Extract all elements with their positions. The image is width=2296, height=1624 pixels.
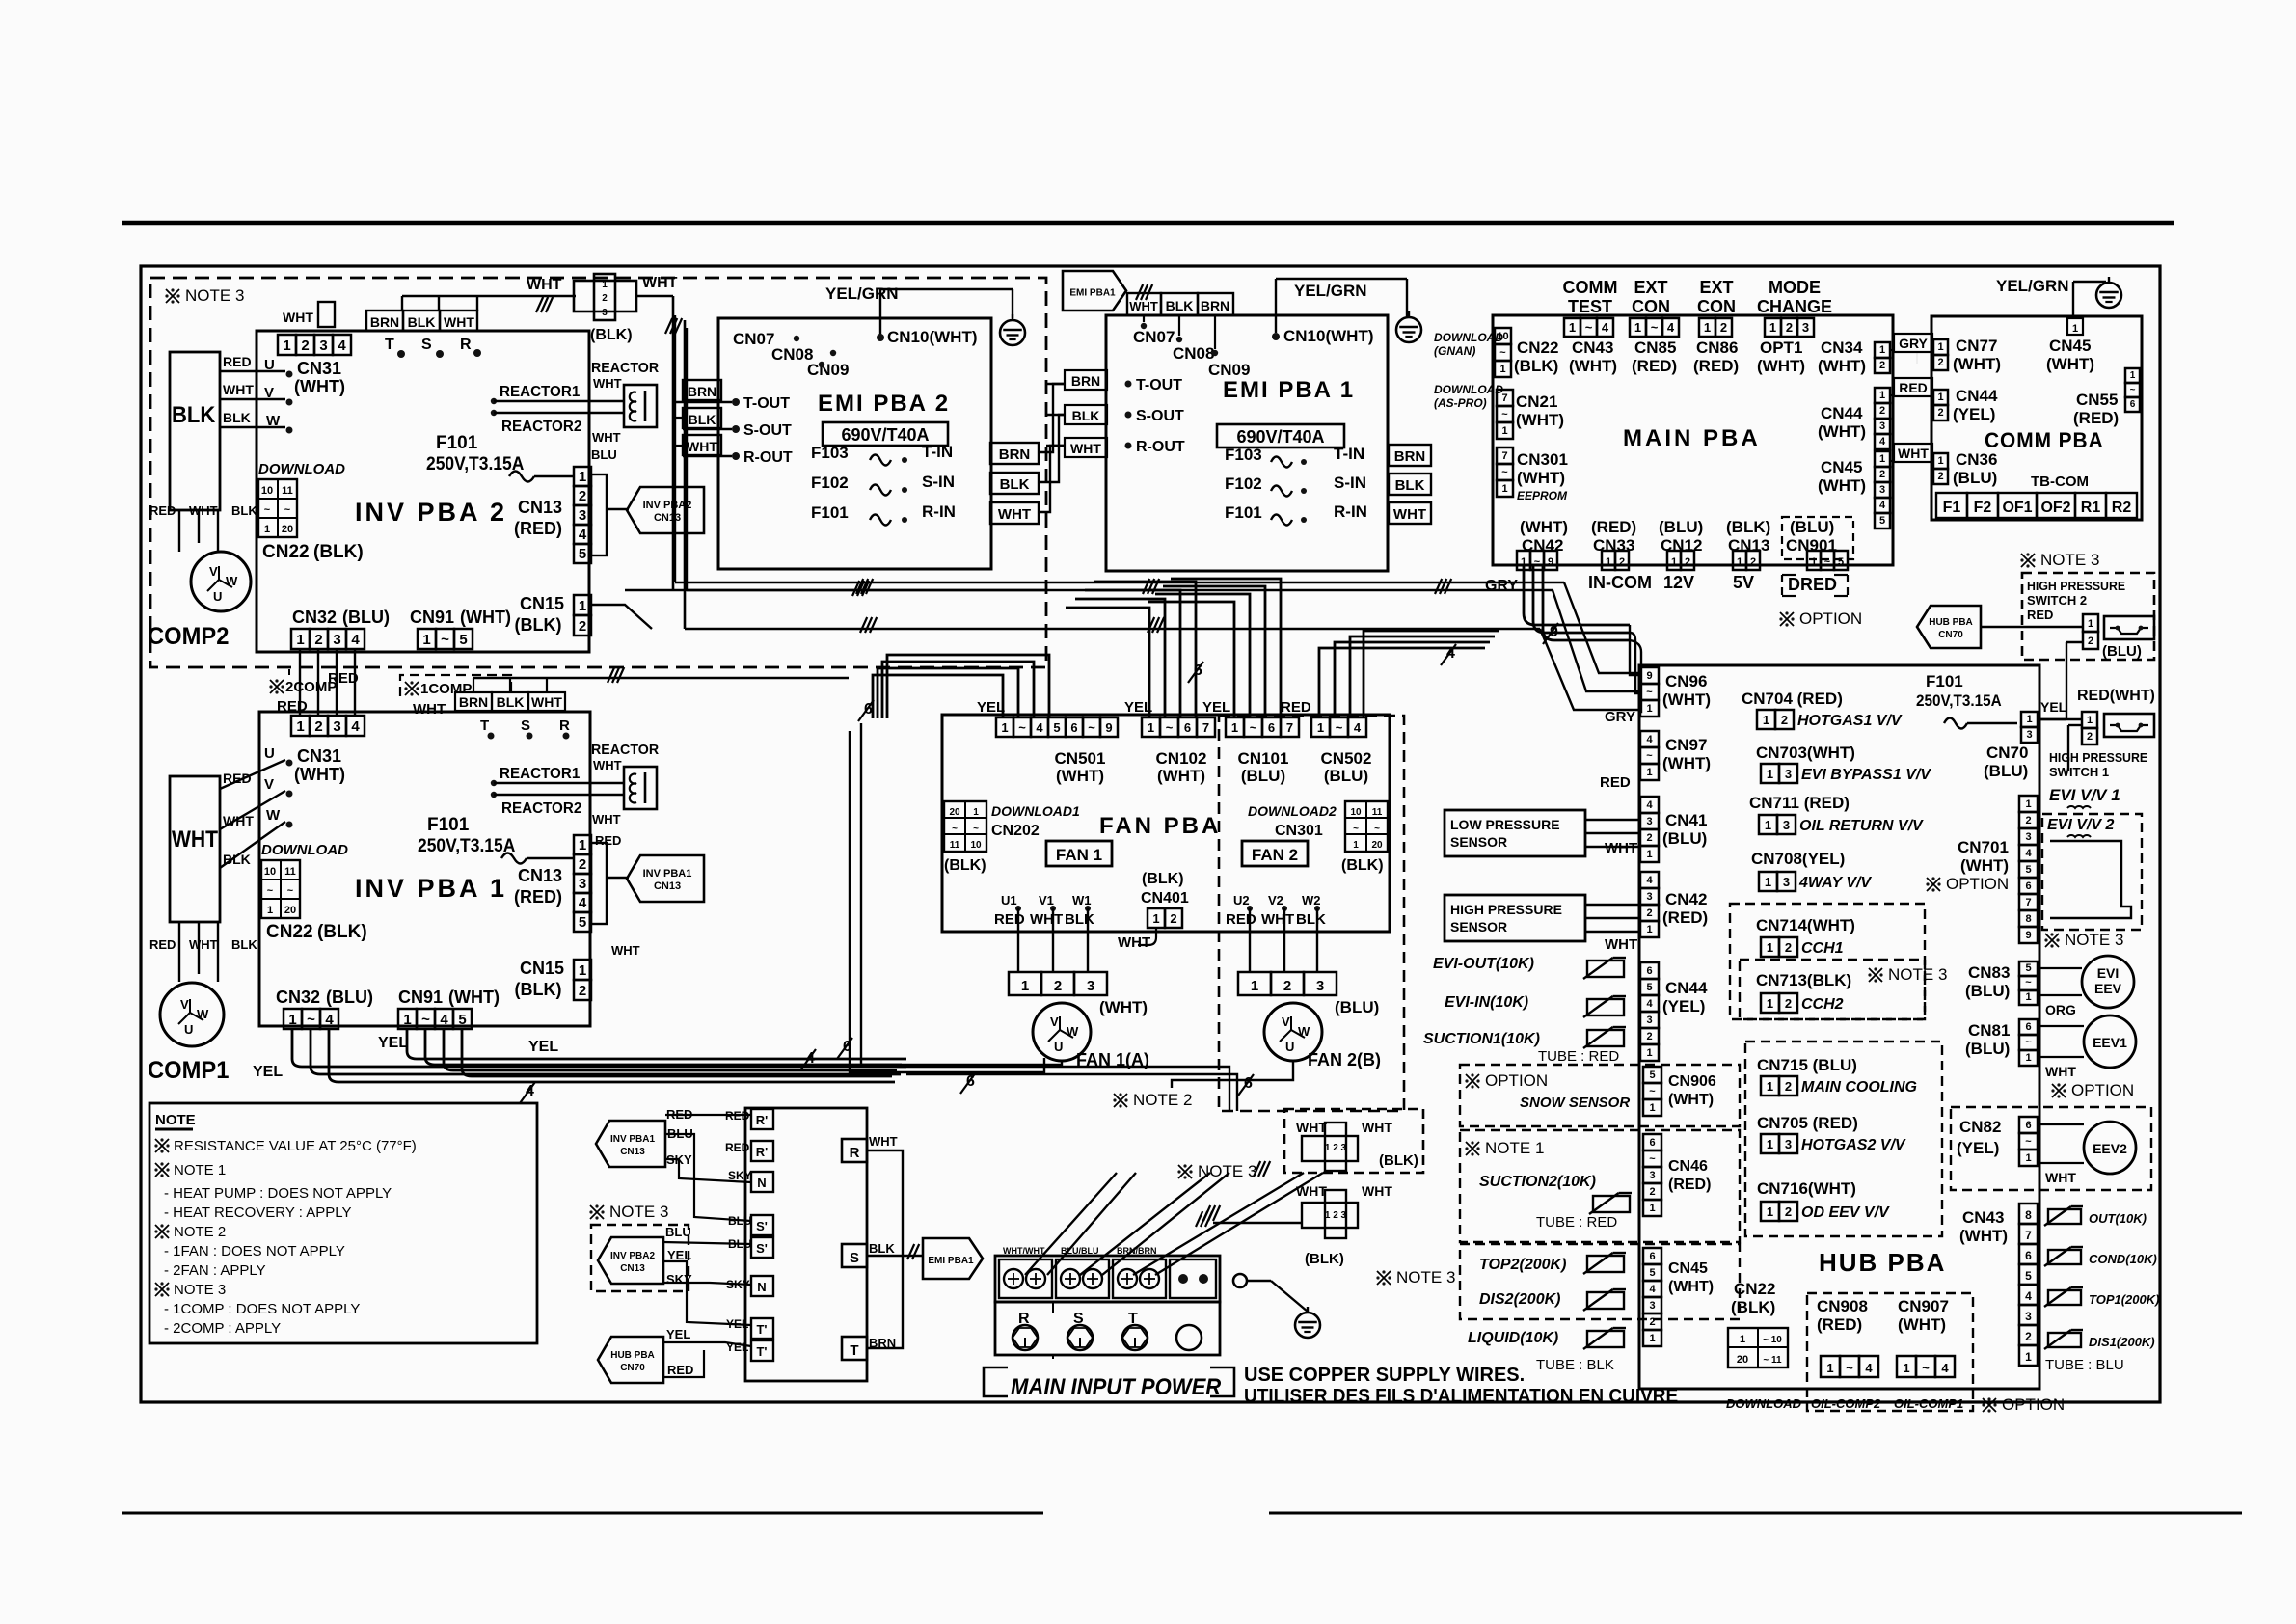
connector DOWNLOAD1 CN202 xyxy=(944,801,986,852)
svg-text:NOTE 2: NOTE 2 xyxy=(1133,1091,1192,1109)
svg-text:3: 3 xyxy=(1783,875,1790,889)
svg-text:SKY: SKY xyxy=(666,1272,692,1286)
block EMI PBA 2 xyxy=(718,318,991,569)
svg-text:1: 1 xyxy=(1501,425,1507,437)
svg-text:11: 11 xyxy=(282,485,293,497)
svg-text:690V/T40A: 690V/T40A xyxy=(841,425,929,445)
svg-text:(RED): (RED) xyxy=(1591,518,1636,536)
svg-text:S-IN: S-IN xyxy=(1334,474,1366,492)
svg-text:R': R' xyxy=(756,1113,768,1127)
wires COMP2 to motor xyxy=(178,510,180,526)
svg-text:1: 1 xyxy=(1769,320,1776,335)
svg-text:OPT1: OPT1 xyxy=(1760,338,1802,357)
svg-text:W: W xyxy=(266,413,281,429)
wire trunk top xyxy=(674,315,676,582)
fan1 wires to motor xyxy=(1017,908,1019,972)
svg-text:GRY: GRY xyxy=(1485,578,1518,594)
svg-text:BLK: BLK xyxy=(1166,298,1194,313)
svg-text:1: 1 xyxy=(1879,390,1885,401)
svg-text:YEL/GRN: YEL/GRN xyxy=(1996,277,2069,295)
svg-text:1: 1 xyxy=(1826,1361,1833,1375)
svg-text:CN55: CN55 xyxy=(2076,391,2118,409)
svg-text:(BLU): (BLU) xyxy=(1662,829,1707,848)
svg-text:S: S xyxy=(850,1250,859,1266)
svg-text:RED: RED xyxy=(223,354,252,369)
svg-text:CN83: CN83 xyxy=(1968,963,2010,982)
wires CN32 PBA2 down to INV PBA1 xyxy=(299,649,301,716)
svg-text:YEL: YEL xyxy=(1202,699,1230,716)
svg-text:2: 2 xyxy=(1170,911,1176,926)
dashed box CN82 (YEL) xyxy=(1951,1107,2151,1190)
svg-text:CN45: CN45 xyxy=(1668,1260,1708,1277)
svg-text:1: 1 xyxy=(1767,940,1773,955)
connector 1234 top INV PBA 2 xyxy=(278,335,296,355)
svg-text:WHT: WHT xyxy=(1296,1120,1327,1135)
svg-text:1: 1 xyxy=(1649,1102,1655,1114)
svg-text:HOTGAS2 V/V: HOTGAS2 V/V xyxy=(1801,1137,1906,1153)
svg-text:BRN: BRN xyxy=(688,384,716,399)
svg-text:F101: F101 xyxy=(427,815,470,835)
svg-text:WHT: WHT xyxy=(611,943,640,958)
svg-text:BRN: BRN xyxy=(999,447,1031,463)
svg-text:2: 2 xyxy=(1646,907,1652,919)
svg-text:DIS2(200K): DIS2(200K) xyxy=(1479,1291,1560,1308)
svg-text:10: 10 xyxy=(1497,331,1508,342)
svg-text:EXT: EXT xyxy=(1699,278,1733,297)
svg-text:6: 6 xyxy=(1070,720,1077,735)
svg-text:W: W xyxy=(266,807,281,824)
svg-text:1: 1 xyxy=(1501,483,1507,495)
svg-text:OPTION: OPTION xyxy=(2071,1081,2134,1099)
svg-text:CN43: CN43 xyxy=(1962,1208,2004,1227)
svg-text:F102: F102 xyxy=(811,474,849,492)
compressor COMP1 lead box WHT xyxy=(170,776,220,922)
svg-text:5: 5 xyxy=(1649,1267,1655,1279)
svg-text:INV PBA1: INV PBA1 xyxy=(643,868,692,880)
labels CN07 CN08 CN09 EMI PBA 1 xyxy=(1143,315,1145,322)
svg-text:~: ~ xyxy=(1646,750,1653,762)
wire riser to trunk xyxy=(672,296,675,590)
svg-text:BLK: BLK xyxy=(497,694,525,710)
svg-text:SENSOR: SENSOR xyxy=(1450,919,1507,934)
svg-text:CN22: CN22 xyxy=(1517,338,1558,357)
svg-text:2COMP: 2COMP xyxy=(285,679,337,695)
svg-text:YEL: YEL xyxy=(666,1327,690,1341)
svg-text:V: V xyxy=(264,776,274,793)
svg-text:BRN: BRN xyxy=(1394,448,1426,465)
svg-text:(RED): (RED) xyxy=(2073,409,2119,427)
svg-text:(WHT): (WHT) xyxy=(294,377,345,396)
svg-text:2: 2 xyxy=(579,983,586,999)
svg-text:HUB PBA: HUB PBA xyxy=(1929,617,1973,628)
svg-text:(BLK): (BLK) xyxy=(515,980,562,999)
svg-text:F103: F103 xyxy=(811,444,849,462)
svg-text:9: 9 xyxy=(1548,556,1553,568)
svg-text:~: ~ xyxy=(1374,824,1380,834)
svg-text:CN31: CN31 xyxy=(297,746,341,766)
svg-text:EMI PBA1: EMI PBA1 xyxy=(1069,288,1116,299)
svg-text:WHT: WHT xyxy=(592,430,621,445)
connector CN41 (BLU) xyxy=(1640,797,1659,813)
dashed box CN715 group xyxy=(1745,1042,1942,1236)
svg-text:1: 1 xyxy=(403,1012,411,1028)
svg-text:2: 2 xyxy=(1879,360,1885,371)
svg-text:REACTOR1: REACTOR1 xyxy=(500,384,581,400)
svg-text:2: 2 xyxy=(1646,1031,1652,1042)
svg-text:YEL: YEL xyxy=(378,1035,408,1051)
svg-text:GRY: GRY xyxy=(1605,709,1635,725)
svg-text:250V,T3.15A: 250V,T3.15A xyxy=(1916,691,2002,710)
svg-text:WHT: WHT xyxy=(283,310,313,325)
svg-text:WHT: WHT xyxy=(172,826,218,853)
svg-text:CN45: CN45 xyxy=(1821,458,1862,476)
svg-text:NOTE: NOTE xyxy=(155,1112,196,1128)
svg-text:5: 5 xyxy=(579,546,586,562)
svg-text:W2: W2 xyxy=(1302,893,1321,907)
svg-text:1: 1 xyxy=(1937,455,1943,467)
svg-text:EVI BYPASS1 V/V: EVI BYPASS1 V/V xyxy=(1801,767,1931,783)
svg-text:F1: F1 xyxy=(1943,500,1961,516)
svg-text:WHT: WHT xyxy=(444,314,474,330)
svg-text:4: 4 xyxy=(1879,436,1886,447)
svg-text:WHT: WHT xyxy=(2045,1064,2076,1079)
svg-text:1: 1 xyxy=(1704,320,1711,335)
wire CN70 pin1 to HP switch 2 pin2 xyxy=(2038,718,2066,720)
wires R S T to EMI PBA1 flag xyxy=(867,1150,903,1256)
svg-text:REACTOR2: REACTOR2 xyxy=(501,419,582,435)
svg-text:- 2COMP : APPLY: - 2COMP : APPLY xyxy=(164,1320,281,1337)
svg-text:(BLK): (BLK) xyxy=(590,327,633,343)
svg-text:INV PBA 1: INV PBA 1 xyxy=(355,874,507,903)
svg-text:HIGH PRESSURE: HIGH PRESSURE xyxy=(2049,751,2147,765)
svg-text:CN502: CN502 xyxy=(1321,749,1372,768)
svg-text:WHT: WHT xyxy=(1129,299,1158,313)
connector CN906 (WHT) xyxy=(1643,1067,1661,1083)
svg-text:WHT: WHT xyxy=(527,277,562,293)
svg-text:10: 10 xyxy=(970,840,982,851)
svg-text:5: 5 xyxy=(459,632,467,648)
wire COMP1 W xyxy=(220,822,285,868)
flag INV PBA2 CN13 bottom xyxy=(598,1237,663,1284)
svg-text:CN36: CN36 xyxy=(1956,450,1997,469)
svg-text:(WHT): (WHT) xyxy=(1569,357,1617,375)
pin strips on MAIN PBA top edge xyxy=(1564,318,1580,337)
svg-text:TUBE : BLU: TUBE : BLU xyxy=(2045,1357,2124,1373)
svg-text:F102: F102 xyxy=(1225,474,1262,493)
pin strip CN501 xyxy=(996,717,1013,737)
svg-text:CN13: CN13 xyxy=(654,880,681,892)
svg-text:(RED): (RED) xyxy=(1662,908,1708,927)
svg-text:1: 1 xyxy=(1001,720,1008,735)
svg-text:WHT: WHT xyxy=(223,382,254,397)
svg-text:~: ~ xyxy=(421,1012,430,1028)
riser bundles above FAN PBA xyxy=(873,675,1003,718)
connector CN96 (WHT) xyxy=(1640,667,1659,684)
svg-text:5: 5 xyxy=(1838,556,1844,568)
svg-text:1: 1 xyxy=(1251,978,1258,994)
svg-text:(WHT): (WHT) xyxy=(1668,1279,1714,1295)
connector CN13 (RED) INV PBA 1 xyxy=(574,835,591,854)
svg-text:2: 2 xyxy=(1781,713,1788,727)
svg-text:(WHT): (WHT) xyxy=(1953,355,2001,373)
svg-text:WHT: WHT xyxy=(223,813,254,828)
svg-text:(BLK): (BLK) xyxy=(1379,1152,1418,1169)
svg-text:WHT: WHT xyxy=(998,506,1031,523)
connector CN46 (RED) xyxy=(1643,1134,1661,1150)
svg-text:CN45: CN45 xyxy=(2049,337,2091,355)
svg-text:(WHT): (WHT) xyxy=(2046,355,2094,373)
svg-text:3: 3 xyxy=(1649,1300,1655,1312)
svg-text:SNOW SENSOR: SNOW SENSOR xyxy=(1520,1095,1630,1111)
svg-text:~: ~ xyxy=(2025,1037,2032,1048)
svg-text:1: 1 xyxy=(1649,1333,1655,1344)
svg-text:OUT(10K): OUT(10K) xyxy=(2089,1211,2147,1226)
svg-text:CCH1: CCH1 xyxy=(1801,940,1844,957)
box LOW PRESSURE SENSOR xyxy=(1445,810,1585,856)
svg-text:DOWNLOAD: DOWNLOAD xyxy=(1434,383,1503,396)
svg-text:U: U xyxy=(1054,1040,1063,1054)
svg-text:R2: R2 xyxy=(2112,500,2132,516)
svg-text:SUCTION1(10K): SUCTION1(10K) xyxy=(1423,1031,1540,1047)
svg-text:OPTION: OPTION xyxy=(1485,1071,1548,1090)
svg-text:2: 2 xyxy=(1937,357,1943,368)
label CN10(WHT) EMI PBA 2 xyxy=(877,334,884,341)
svg-text:20: 20 xyxy=(282,524,293,535)
svg-text:R: R xyxy=(460,337,472,353)
block INV PBA 1 xyxy=(259,712,590,1026)
svg-text:10: 10 xyxy=(261,485,273,497)
svg-text:DOWNLOAD1: DOWNLOAD1 xyxy=(991,803,1080,819)
svg-text:CN13: CN13 xyxy=(518,866,562,885)
svg-text:4: 4 xyxy=(579,895,587,911)
svg-text:CN97: CN97 xyxy=(1665,736,1707,754)
svg-text:2: 2 xyxy=(1685,556,1690,568)
svg-text:1: 1 xyxy=(1671,556,1677,568)
terminal block main input xyxy=(995,1256,1220,1302)
svg-text:UTILISER DES FILS D'ALIMENTATI: UTILISER DES FILS D'ALIMENTATION EN CUIV… xyxy=(1244,1386,1678,1408)
svg-text:7: 7 xyxy=(2025,1229,2032,1242)
wires from EMI PBA 2 OUT xyxy=(673,401,732,403)
svg-text:2: 2 xyxy=(1054,978,1062,994)
wire trunk mid xyxy=(684,320,687,629)
svg-text:1: 1 xyxy=(2025,1350,2032,1364)
svg-text:CN713(BLK): CN713(BLK) xyxy=(1756,971,1851,989)
svg-text:6: 6 xyxy=(1649,1137,1655,1149)
svg-text:3: 3 xyxy=(2025,1310,2032,1323)
svg-text:MAIN PBA: MAIN PBA xyxy=(1623,425,1761,451)
svg-text:RED: RED xyxy=(223,771,252,786)
svg-text:WHT: WHT xyxy=(1261,911,1294,928)
svg-text:DRED: DRED xyxy=(1788,575,1837,594)
svg-text:4: 4 xyxy=(1646,734,1653,745)
dashed box NOTE 1 xyxy=(1460,1130,1740,1242)
boxed label FAN 1 xyxy=(1046,841,1112,866)
svg-text:(BLK): (BLK) xyxy=(317,922,367,942)
svg-text:~: ~ xyxy=(1922,1361,1930,1375)
svg-text:(WHT): (WHT) xyxy=(1818,357,1866,375)
svg-text:COND(10K): COND(10K) xyxy=(2089,1252,2157,1266)
svg-text:~: ~ xyxy=(1651,320,1659,335)
svg-text:CN10(WHT): CN10(WHT) xyxy=(887,328,978,346)
svg-text:1: 1 xyxy=(283,338,290,354)
svg-text:WHT: WHT xyxy=(642,275,678,291)
svg-text:2: 2 xyxy=(2025,815,2031,826)
svg-text:INV PBA1: INV PBA1 xyxy=(610,1134,656,1145)
svg-text:BRN: BRN xyxy=(1201,298,1229,313)
svg-text:(WHT): (WHT) xyxy=(1959,1227,2008,1245)
svg-text:1: 1 xyxy=(1649,1203,1655,1214)
dashed box INV PBA2 CN13 xyxy=(591,1225,689,1291)
svg-text:NOTE 1: NOTE 1 xyxy=(174,1162,226,1178)
svg-text:~: ~ xyxy=(284,504,291,516)
svg-text:4: 4 xyxy=(1646,998,1653,1010)
dashed box CN714 CCH1 xyxy=(1730,904,1925,1019)
svg-text:4: 4 xyxy=(1646,799,1653,811)
svg-text:CN44: CN44 xyxy=(1821,404,1863,422)
thermistor DIS1(200K) xyxy=(2048,1333,2081,1347)
svg-text:CN32: CN32 xyxy=(276,988,320,1007)
svg-text:(WHT): (WHT) xyxy=(1157,767,1205,785)
svg-text:3: 3 xyxy=(1879,420,1885,432)
svg-text:6: 6 xyxy=(1646,965,1652,977)
svg-text:(RED): (RED) xyxy=(514,519,562,538)
svg-text:CN41: CN41 xyxy=(1665,811,1707,829)
svg-text:- 2FAN : APPLY: - 2FAN : APPLY xyxy=(164,1262,266,1279)
svg-text:2: 2 xyxy=(1879,405,1885,417)
svg-text:FAN 2(B): FAN 2(B) xyxy=(1308,1050,1381,1069)
svg-text:TOP2(200K): TOP2(200K) xyxy=(1479,1257,1566,1273)
svg-text:TUBE : RED: TUBE : RED xyxy=(1536,1214,1617,1231)
svg-text:WHT: WHT xyxy=(189,503,218,518)
svg-text:1: 1 xyxy=(1811,556,1817,568)
svg-text:1: 1 xyxy=(1148,720,1154,735)
dashed box CN713 CCH2 xyxy=(1740,960,1925,1019)
svg-text:7: 7 xyxy=(2025,897,2031,908)
svg-text:2: 2 xyxy=(301,338,309,354)
switch contact HP switch 2 xyxy=(2083,614,2098,632)
svg-text:BLK: BLK xyxy=(689,412,716,427)
svg-text:(BLU): (BLU) xyxy=(1984,762,2028,780)
EEV2 circle xyxy=(2084,1122,2136,1174)
svg-text:WHT: WHT xyxy=(1118,934,1150,951)
svg-text:2: 2 xyxy=(314,632,322,648)
svg-text:2: 2 xyxy=(1283,978,1291,994)
svg-text:2: 2 xyxy=(2087,731,2093,743)
svg-text:4: 4 xyxy=(1667,320,1675,335)
motor FAN 1 xyxy=(1033,1003,1091,1061)
svg-text:WHT: WHT xyxy=(2045,1170,2076,1185)
svg-text:SUCTION2(10K): SUCTION2(10K) xyxy=(1479,1174,1596,1190)
svg-text:CN85: CN85 xyxy=(1634,338,1676,357)
flag INV PBA2 CN13 xyxy=(607,508,629,510)
svg-text:YEL: YEL xyxy=(2040,699,2067,715)
svg-text:RED(WHT): RED(WHT) xyxy=(2077,688,2155,704)
svg-text:1: 1 xyxy=(1767,1204,1773,1219)
svg-text:F101: F101 xyxy=(1225,503,1262,522)
svg-text:6: 6 xyxy=(1268,720,1275,735)
svg-text:TUBE : BLK: TUBE : BLK xyxy=(1536,1357,1614,1373)
svg-text:2: 2 xyxy=(602,293,608,304)
svg-text:CN91: CN91 xyxy=(410,608,454,627)
svg-text:EXT: EXT xyxy=(1634,278,1667,297)
svg-text:(WHT): (WHT) xyxy=(1517,469,1565,487)
svg-text:- HEAT RECOVERY : APPLY: - HEAT RECOVERY : APPLY xyxy=(164,1204,352,1221)
svg-text:BLK: BLK xyxy=(1065,911,1094,928)
svg-text:1: 1 xyxy=(1634,320,1641,335)
connector CN15 INV PBA 1 xyxy=(574,960,591,980)
svg-text:U: U xyxy=(1285,1040,1294,1054)
svg-text:WHT: WHT xyxy=(593,758,622,772)
svg-text:RED: RED xyxy=(1281,699,1311,716)
svg-text:(BLU): (BLU) xyxy=(342,608,390,627)
svg-text:(BLU): (BLU) xyxy=(2102,643,2142,660)
svg-text:RESISTANCE VALUE AT 25°C (77°F: RESISTANCE VALUE AT 25°C (77°F) xyxy=(174,1138,417,1154)
svg-text:(BLK): (BLK) xyxy=(515,615,562,635)
svg-text:NOTE 1: NOTE 1 xyxy=(1485,1139,1544,1157)
svg-text:OPTION: OPTION xyxy=(1946,875,2009,893)
svg-text:DOWNLOAD: DOWNLOAD xyxy=(1726,1396,1802,1411)
svg-text:~: ~ xyxy=(264,504,271,516)
svg-text:V1: V1 xyxy=(1039,893,1054,907)
svg-text:(WHT): (WHT) xyxy=(1757,357,1805,375)
svg-text:EVI V/V 1: EVI V/V 1 xyxy=(2049,786,2120,804)
svg-text:2: 2 xyxy=(1785,996,1792,1011)
svg-text:WHT: WHT xyxy=(1030,911,1063,928)
terminal block lower part xyxy=(995,1302,1220,1355)
svg-text:1: 1 xyxy=(1646,849,1652,860)
svg-text:CN13: CN13 xyxy=(518,498,562,517)
svg-text:1 2 3: 1 2 3 xyxy=(1325,1143,1347,1153)
svg-text:EEV1: EEV1 xyxy=(2093,1035,2127,1050)
labels BRN BLK WHT T S R INV PBA 1 xyxy=(455,692,492,711)
svg-text:U: U xyxy=(184,1022,193,1037)
svg-text:RED: RED xyxy=(1226,911,1256,928)
svg-text:NOTE 3: NOTE 3 xyxy=(2065,931,2123,949)
svg-text:RED: RED xyxy=(667,1363,693,1377)
svg-text:5: 5 xyxy=(2025,1269,2032,1283)
svg-text:S-IN: S-IN xyxy=(922,473,955,491)
svg-text:250V,T3.15A: 250V,T3.15A xyxy=(418,834,515,855)
connector CN97 (WHT) xyxy=(1640,731,1659,747)
svg-text:T-IN: T-IN xyxy=(1334,445,1364,463)
wires COMP1 to motor xyxy=(178,922,180,982)
svg-text:(BLK): (BLK) xyxy=(1305,1251,1344,1267)
svg-text:~: ~ xyxy=(973,824,979,834)
svg-text:~: ~ xyxy=(1250,720,1257,735)
svg-text:(AS-PRO): (AS-PRO) xyxy=(1434,396,1487,410)
svg-text:(RED): (RED) xyxy=(1632,357,1677,375)
svg-text:3: 3 xyxy=(1646,816,1652,827)
svg-text:SWITCH 1: SWITCH 1 xyxy=(2049,765,2109,779)
svg-text:CN32: CN32 xyxy=(292,608,337,627)
svg-text:3: 3 xyxy=(2025,831,2031,843)
svg-text:3: 3 xyxy=(602,308,608,318)
svg-text:YEL: YEL xyxy=(253,1064,283,1080)
svg-text:690V/T40A: 690V/T40A xyxy=(1236,427,1324,447)
svg-text:CN34: CN34 xyxy=(1821,338,1863,357)
svg-text:11: 11 xyxy=(1372,807,1383,818)
svg-text:2: 2 xyxy=(2088,636,2093,647)
terminal block riser wires xyxy=(1025,1173,1117,1275)
svg-text:6: 6 xyxy=(1184,720,1191,735)
dashed NOTE 3 boundary box xyxy=(150,278,1046,667)
svg-text:1: 1 xyxy=(2130,370,2136,381)
svg-text:EEPROM: EEPROM xyxy=(1517,489,1568,502)
svg-text:~: ~ xyxy=(287,885,294,897)
svg-text:~: ~ xyxy=(441,632,449,648)
svg-text:1: 1 xyxy=(1767,1137,1773,1151)
svg-text:(YEL): (YEL) xyxy=(1957,1139,1999,1157)
